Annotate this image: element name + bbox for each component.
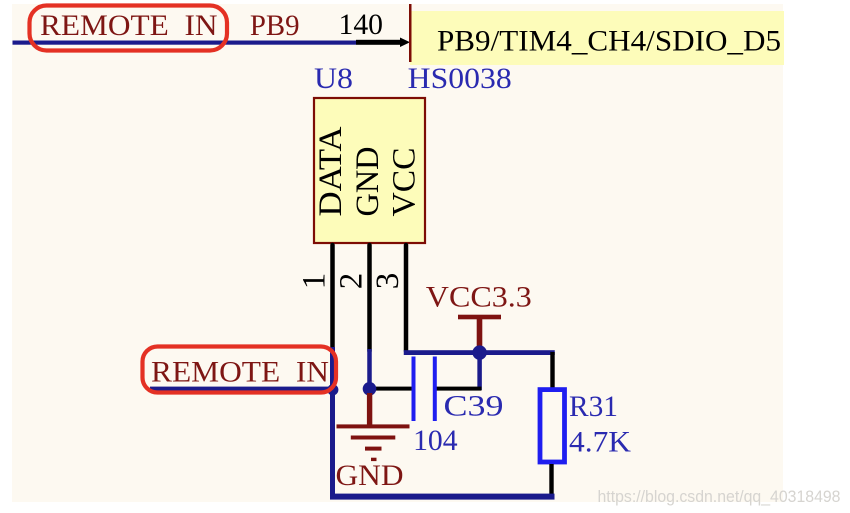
pin 2 lead (black)	[367, 245, 372, 351]
wire GND net vertical (navy)	[367, 349, 372, 389]
svg-text:PB9/TIM4_CH4/SDIO_D5: PB9/TIM4_CH4/SDIO_D5	[437, 25, 781, 58]
port arrowhead into chip	[400, 38, 410, 48]
ground symbol stem	[367, 393, 372, 425]
resistor R31 body	[540, 390, 565, 462]
capacitor C39 left lead (black)	[370, 387, 414, 391]
power symbol VCC3.3 bar	[458, 315, 501, 320]
capacitor C39 right lead (black)	[436, 387, 482, 391]
svg-text:VCC3.3: VCC3.3	[426, 281, 532, 314]
svg-text:REMOTE IN: REMOTE IN	[151, 356, 329, 389]
capacitor C39 right plate	[433, 357, 437, 422]
svg-text:140: 140	[339, 8, 384, 41]
svg-text:GND: GND	[350, 147, 386, 217]
annotation ellipse (lower)	[143, 347, 337, 393]
ground symbol bar 3	[365, 447, 382, 451]
pin 3 lead (black)	[404, 245, 409, 351]
wire bottom return DATA net (navy)	[330, 494, 555, 500]
svg-text:VCC: VCC	[387, 148, 423, 217]
svg-text:https://blog.csdn.net/qq_40318: https://blog.csdn.net/qq_40318498	[598, 487, 841, 506]
junction dot GND node	[363, 382, 377, 396]
svg-text:U8: U8	[314, 62, 353, 95]
resistor R31 bottom lead (black)	[549, 464, 553, 498]
wire stub to net label REMOTE_IN (navy)	[150, 387, 334, 391]
svg-text:DATA: DATA	[313, 126, 349, 216]
svg-text:GND: GND	[336, 459, 404, 492]
wire DATA net vertical (navy)	[330, 347, 335, 499]
svg-text:2: 2	[334, 273, 370, 290]
chip U? (STM32) body fragment	[410, 11, 784, 65]
power symbol VCC3.3 stem	[477, 317, 483, 348]
svg-text:4.7K: 4.7K	[569, 426, 631, 459]
wire net REMOTE_IN top horizontal	[13, 41, 357, 45]
pin 1 lead (black)	[330, 245, 335, 349]
svg-text:1: 1	[297, 273, 333, 290]
wire VCC net: pin3 elbow horizontal (navy)	[404, 350, 555, 355]
svg-text:HS0038: HS0038	[408, 62, 512, 95]
svg-text:R31: R31	[569, 390, 618, 423]
ground symbol bar 4	[371, 458, 377, 461]
svg-text:C39: C39	[444, 390, 504, 423]
svg-text:104: 104	[413, 424, 458, 457]
capacitor C39 left plate	[412, 357, 416, 422]
chip left border	[409, 4, 412, 62]
resistor R31 top lead (black)	[550, 352, 554, 389]
wire black stub to chip pin 140	[356, 40, 402, 45]
junction dot VCC node	[472, 345, 486, 359]
wire VCC riser to capacitor (navy)	[477, 352, 482, 390]
junction dot DATA node	[327, 384, 338, 395]
svg-text:3: 3	[370, 273, 406, 290]
svg-text:REMOTE IN: REMOTE IN	[40, 9, 218, 42]
ground symbol bar 2	[351, 436, 396, 440]
annotation ellipse (top)	[30, 6, 228, 51]
IR receiver U8 body	[314, 98, 425, 243]
ground symbol bar 1	[337, 424, 410, 428]
svg-text:PB9: PB9	[250, 9, 300, 42]
